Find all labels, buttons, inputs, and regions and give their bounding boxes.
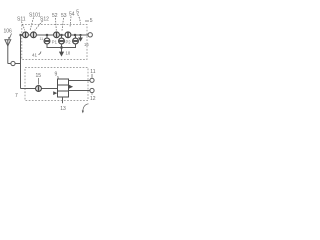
wire: antenna stem [7, 40, 9, 64]
svg-text:9: 9 [55, 72, 58, 78]
wire: rail S12 to node J1 [36, 34, 53, 36]
wire: J2 drop [61, 36, 63, 38]
wire: block bottom stub [62, 97, 64, 103]
divider 1 [58, 84, 69, 86]
resonator P2 (parallel) [59, 38, 65, 44]
leader 55 [78, 15, 81, 24]
svg-text:16: 16 [84, 42, 89, 47]
resonator S14 (series) [65, 32, 71, 38]
wire: P2 to bus [61, 44, 63, 48]
svg-text:13: 13 [60, 106, 66, 112]
node J2 [60, 34, 62, 36]
node: antenna port circle [11, 61, 15, 65]
leader arrow to module box [83, 104, 89, 111]
wire: rail S13 to S14 [59, 34, 65, 36]
wire: Rx input horizontal [21, 88, 58, 90]
svg-text:7: 7 [15, 93, 18, 99]
dashed box: Rx filter module outline [25, 68, 88, 101]
divider 2 [58, 90, 69, 92]
port circle: Tx output [88, 33, 92, 37]
node: rail corner junction [20, 34, 22, 36]
ground arrow at J4 [80, 35, 82, 38]
resonator S13 (series) [54, 32, 60, 38]
svg-text:P1: P1 [52, 40, 58, 45]
wire: rail S14 to node J3 [71, 34, 88, 36]
leader 54 [70, 17, 71, 28]
svg-text:S12: S12 [40, 17, 49, 23]
wire: vertical riser/drop [20, 35, 22, 89]
port circle: Rx output 1 [90, 78, 94, 82]
port circle: Rx output 2 [90, 88, 94, 92]
resonator P3 (parallel) [73, 38, 79, 44]
dashed box: Tx filter chip outline [22, 25, 87, 60]
resonator P1 (parallel) [44, 38, 50, 44]
svg-text:11: 11 [90, 69, 95, 75]
leader S101 [30, 18, 34, 31]
wire: block bottom-right output [69, 90, 90, 92]
leader 53 [62, 18, 64, 31]
arrow into block bottom-left [53, 91, 57, 95]
wire: J3 drop [75, 36, 77, 38]
svg-text:53: 53 [61, 13, 67, 19]
svg-text:5: 5 [90, 18, 93, 24]
resonator 15 (phase shifter) [36, 86, 42, 92]
wire: P1 to bus [47, 44, 62, 48]
svg-text:52: 52 [52, 13, 58, 19]
leader arrow from 106 to antenna [9, 34, 11, 39]
svg-text:18: 18 [66, 51, 71, 56]
block: Rx filter rectangle [58, 79, 69, 97]
svg-text:P2: P2 [66, 40, 72, 45]
wire: rail S11-S12 [28, 34, 30, 36]
wire: J1 drop [46, 36, 48, 38]
wire: Tx rail left segment [21, 34, 23, 36]
leader 9 [57, 76, 60, 79]
resonator S11 (series) [23, 32, 29, 38]
node bus junction [60, 46, 62, 48]
leader 41 hook [39, 52, 42, 55]
node J3 [74, 34, 76, 36]
leader 52 [55, 18, 58, 31]
node J4 [80, 34, 82, 36]
ground arrow below bus [61, 49, 63, 53]
leader S11 [22, 22, 25, 31]
svg-text:41: 41 [32, 53, 38, 58]
svg-text:11: 11 [40, 37, 44, 41]
antenna ANT [5, 40, 11, 46]
node J1 [46, 34, 48, 36]
wire: P3 to bus [62, 44, 76, 48]
arrow out of block middle-right [69, 85, 73, 89]
leader 15 [38, 78, 40, 85]
svg-text:12: 12 [90, 96, 96, 102]
svg-text:54: 54 [69, 12, 75, 18]
wire: block top-right output [69, 80, 91, 82]
wire: antenna horizontal to node [8, 63, 21, 65]
svg-text:106: 106 [4, 29, 13, 35]
resonator S12 (series) [31, 32, 37, 38]
leader S12 [35, 21, 43, 30]
